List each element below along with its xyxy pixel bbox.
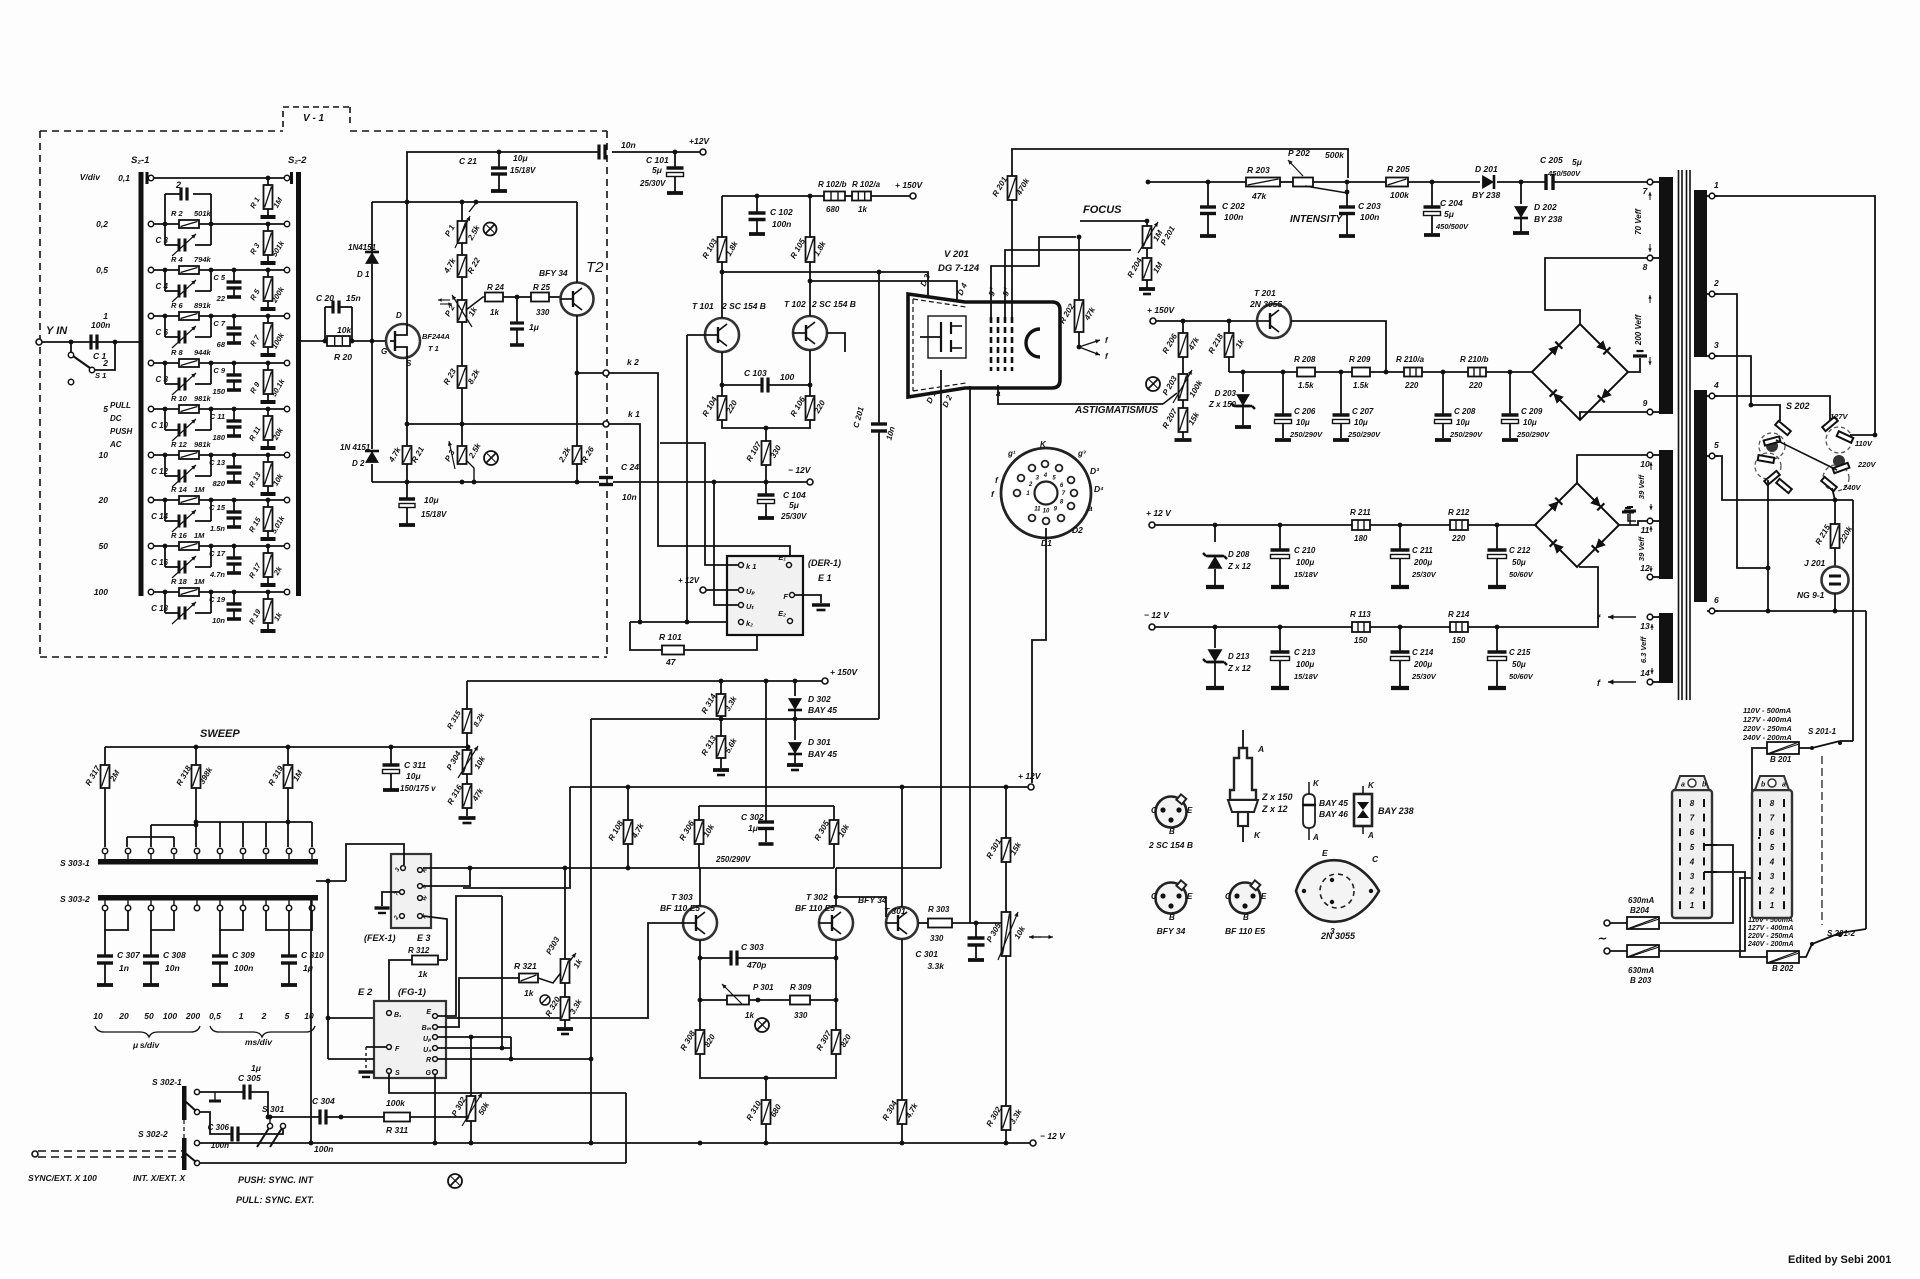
junction [808,279,813,284]
module V-1 dashed outline [40,107,607,657]
capacitor C 309 100n [212,930,255,985]
svg-text:C 203: C 203 [1358,201,1381,211]
terminal -12V [788,465,813,485]
filament lead f tap13 [1597,613,1636,623]
transformer tap 12 [1640,563,1659,580]
screw adjust [755,1018,769,1032]
pin E3 mid left [394,890,405,897]
resistor R211 180 [1350,508,1371,543]
terminal +12V E1 [678,576,738,593]
resistor R306 10k [678,819,717,844]
wire connector1 pin3 [1704,871,1717,873]
svg-text:DC: DC [110,414,122,423]
wire F ground [795,595,830,610]
wire F ground dotted [359,1047,387,1077]
svg-text:Z x 150: Z x 150 [1261,792,1293,802]
fuse table B202 [1747,917,1794,948]
svg-text:10: 10 [99,450,109,460]
svg-text:E 3: E 3 [417,933,431,943]
wire E3 out1 rail [423,867,699,869]
svg-text:C 14: C 14 [151,512,168,521]
svg-text:1μ: 1μ [251,1063,262,1073]
svg-text:S 301: S 301 [262,1104,284,1114]
terminal +12V psu [1146,508,1172,528]
svg-text:794k: 794k [194,255,212,264]
svg-text:T 301: T 301 [884,906,906,916]
resistor R102/a 1k [852,180,881,214]
resistor R203 47k [1246,165,1280,201]
svg-text:6: 6 [1690,828,1695,837]
wire sync bus [268,1116,320,1118]
svg-text:1.5n: 1.5n [210,524,225,533]
wire connector2 pin3 [1758,877,1760,879]
svg-text:8: 8 [1770,799,1775,808]
resistor R311 100k [384,1098,410,1135]
resistor R218 1k [1207,321,1247,372]
svg-text:Uₚ: Uₚ [423,1036,432,1043]
wire +150V xamp rail [467,680,822,682]
svg-text:100: 100 [163,1011,177,1021]
svg-text:C 306: C 306 [208,1123,230,1132]
terminal k1 [407,409,640,427]
svg-text:1: 1 [103,311,108,321]
wire to T1 gate [350,340,387,342]
svg-text:C 20: C 20 [316,293,334,303]
svg-text:C 4: C 4 [156,282,169,291]
capacitor C215 50u 50/60V [1488,627,1534,688]
junction [1241,370,1246,375]
resistor R103 1.8k [701,196,740,262]
svg-text:BF 110 E5: BF 110 E5 [795,903,835,913]
svg-text:C 202: C 202 [1222,201,1245,211]
svg-text:B: B [1243,913,1249,922]
transformer primary tap 2 [1707,278,1719,297]
label 6.3 Veff [1639,624,1654,674]
wire R pin [438,1058,593,1060]
screw adjust [448,1174,462,1188]
switch contact S2-2 row 0,2 [284,221,289,226]
transformer tap 9 [1643,398,1659,415]
svg-text:47: 47 [665,657,677,667]
resistor R107 330 [745,428,784,482]
capacitor C 209 10u 250/290V [1502,372,1551,440]
svg-text:S 201-1: S 201-1 [1808,727,1837,736]
switch contact S2-1 row 0,5 [148,267,153,272]
capacitor C302 1u 250/290V [715,806,774,864]
svg-text:5: 5 [1690,843,1695,852]
svg-text:D 301: D 301 [808,737,831,747]
resistor R101 47 [659,632,684,667]
svg-text:10n: 10n [621,140,636,150]
svg-text:0,5: 0,5 [209,1011,221,1021]
wire attenuator row [154,499,284,501]
svg-text:9: 9 [1643,398,1648,408]
pin E3 right 1 [418,867,430,874]
svg-text:2: 2 [1769,887,1775,896]
svg-text:C 303: C 303 [741,942,764,952]
junction [575,371,580,376]
capacitor C303 470p [700,942,836,970]
wire T301 emitter [901,939,903,1100]
wire T102 emitter [809,350,811,396]
wire T102 base [827,333,845,352]
svg-text:500k: 500k [1325,150,1345,160]
diode D201 BY238 [1472,164,1500,200]
svg-text:S 303-1: S 303-1 [60,858,90,868]
svg-text:C 16: C 16 [151,558,168,567]
transistor T1 BF244A FET [381,311,450,368]
wire sweep tree [127,822,312,847]
svg-text:T 302: T 302 [806,892,828,902]
resistor R308 820 [679,1029,718,1054]
capacitor C203 100n [1339,192,1381,236]
svg-text:11: 11 [1034,507,1041,513]
resistor R 9 50.1k [248,361,287,402]
wire +12V left corner [463,787,570,888]
junction [1766,566,1771,571]
wire rotor link [1776,440,1837,470]
svg-text:10: 10 [1640,459,1650,469]
pinout 2SC154B [1148,794,1193,850]
svg-text:AC: AC [109,440,122,449]
svg-text:50/60V: 50/60V [1509,570,1534,579]
svg-text:B: B [1169,827,1175,836]
svg-text:1N4151: 1N4151 [348,243,377,252]
label 39 Veff upper [1637,462,1653,510]
svg-text:2N 3055: 2N 3055 [1249,299,1282,309]
svg-text:100: 100 [780,372,794,382]
svg-text:b: b [1702,782,1707,789]
wire 150V filter rail [1229,371,1297,373]
switch bar S2-1 [131,155,149,596]
svg-text:C 211: C 211 [1412,546,1433,555]
wire +150V rail [722,195,824,197]
wire T303 collector [699,868,701,906]
wire T201 to rail [1291,321,1386,372]
switch contact S2-2 row 10 [284,452,289,457]
svg-text:C 6: C 6 [156,328,169,337]
transformer tap 8 [1643,255,1659,272]
svg-text:100n: 100n [314,1144,333,1154]
wire bridge2 right to tap11 [1619,507,1648,525]
svg-text:1k: 1k [490,308,499,317]
svg-text:1: 1 [1690,901,1695,910]
capacitor C301 3.3k [915,923,984,971]
electron gun [920,316,966,358]
capacitor 10u 15/18V [399,482,447,525]
resistor R108 4.7k [607,787,646,868]
pinout BF110E5 [1225,880,1267,936]
svg-text:220: 220 [1468,381,1483,390]
resistor R315 8.2k [445,708,487,750]
junction [268,1115,273,1120]
wire Up pin [438,1036,511,1038]
pin k2 [739,619,754,628]
capacitor C21 10u 15/18V [459,152,536,191]
resistor R22 4.7k [442,243,483,277]
svg-text:2: 2 [175,180,181,190]
svg-text:C 214: C 214 [1412,648,1434,657]
junction [720,383,725,388]
wire k2 pin feed [630,621,739,623]
tube socket V201 base diagram [991,440,1104,548]
svg-text:0,2: 0,2 [96,219,108,229]
wire attenuator output [301,340,327,342]
resistor R 8 944k with trimmer C 8 module [156,348,214,395]
svg-text:R 205: R 205 [1387,164,1410,174]
module E3 (FEX-1) [364,854,431,943]
svg-text:50: 50 [144,1011,154,1021]
capacitor C 5 22 [213,268,241,303]
svg-text:INT. X/EXT. X: INT. X/EXT. X [133,1173,186,1183]
svg-text:G: G [426,1070,432,1077]
svg-text:− 12V: − 12V [788,465,812,475]
switch S1 PULL DC / PUSH AC [68,344,132,449]
svg-text:BFY 34: BFY 34 [1157,926,1186,936]
svg-text:FOCUS: FOCUS [1083,204,1122,216]
wire C201 bus [591,718,879,720]
svg-text:820: 820 [212,479,225,488]
resistor R305 10k [813,819,852,844]
svg-text:C 209: C 209 [1521,407,1543,416]
svg-text:68: 68 [217,340,226,349]
svg-text:+12V: +12V [689,136,710,146]
pin S [387,1069,400,1077]
svg-text:E₂: E₂ [778,609,786,618]
svg-text:2: 2 [1713,278,1719,288]
svg-text:D 201: D 201 [1475,164,1498,174]
pinout BFY34 [1151,880,1193,936]
trimmer P303 1k [538,868,584,983]
svg-text:C 307: C 307 [117,950,141,960]
svg-text:C 103: C 103 [744,368,767,378]
junction [405,200,410,205]
svg-text:25/30V: 25/30V [780,512,807,521]
fuse B204 630mA [1610,896,1659,929]
pin E3 bot left [393,914,404,922]
capacitor C311 10u 150/175V [383,747,437,793]
svg-text:25/30V: 25/30V [639,179,666,188]
switch contact S2-1 row 100 [148,589,153,594]
pin E3 right 2 [418,884,429,890]
svg-text:2 SC 154 B: 2 SC 154 B [721,301,766,311]
capacitor C 208 10u 250/290V [1435,372,1484,440]
timebase range labels [93,1011,315,1050]
svg-text:70 Veff: 70 Veff [1634,208,1643,235]
svg-text:Uₜ: Uₜ [746,602,754,611]
svg-text:D 2: D 2 [352,459,365,468]
svg-text:10μ: 10μ [424,495,439,505]
CRT V201 DG7-124 envelope [908,249,1060,397]
wire top rail y202 [372,201,577,203]
svg-text:2: 2 [102,358,108,368]
svg-text:R 14: R 14 [171,485,188,494]
svg-text:Uₚ: Uₚ [746,587,755,596]
svg-text:1μ: 1μ [529,322,540,332]
svg-text:1n: 1n [119,963,129,973]
switch S201-1 [1799,727,1853,750]
pinout BAY238 [1354,781,1414,840]
junction [1749,403,1754,408]
wire Y IN to attenuator [42,341,139,343]
diode D2 1N4151 [340,341,379,482]
wire R101 to E2 pin [684,625,757,650]
svg-text:2N 3055: 2N 3055 [1320,931,1356,941]
resistor R321 1k [514,961,538,998]
junction [500,1046,505,1051]
svg-text:5μ: 5μ [652,165,663,175]
svg-text:20: 20 [98,495,109,505]
svg-text:1.5k: 1.5k [1298,381,1314,390]
svg-text:Bₘ: Bₘ [422,1025,432,1032]
wire xamp output rail [836,867,941,869]
wire R311 to P302 [410,1116,471,1118]
wire k1 route [609,424,640,622]
svg-text:D 208: D 208 [1228,550,1250,559]
svg-text:A: A [1257,744,1264,754]
capacitor C20 15n [316,293,361,341]
svg-text:+ 150V: + 150V [895,180,924,190]
wire E2 S riser [625,1093,627,1163]
switch S301 [257,1104,286,1147]
svg-text:C 204: C 204 [1440,198,1463,208]
potentiometer P202 500k [1288,148,1349,194]
svg-text:R 101: R 101 [659,632,682,642]
wire fuse B203 to connector [1659,872,1745,951]
capacitor C211 200u 25/30V [1391,525,1437,587]
resistor R314 3.3k [700,681,739,716]
wire T303 emitter [699,940,701,1030]
wire S302-1 upper contact [200,1091,244,1093]
svg-text:C 11: C 11 [210,412,225,421]
resistor R210/b 220 [1460,355,1489,390]
terminal +150V psu [1147,305,1176,324]
junction [764,480,769,485]
resistor R205 100k [1386,164,1410,200]
svg-text:180: 180 [212,433,225,442]
junction [323,339,328,344]
svg-text:R 8: R 8 [171,348,184,357]
junction [1213,625,1218,630]
svg-text:C: C [1225,892,1231,901]
svg-text:R 10: R 10 [171,394,188,403]
switch contact S2-2 row 20 [284,497,289,502]
wire attenuator row [154,408,284,410]
svg-text:B204: B204 [1630,906,1650,915]
svg-text:D³: D³ [1090,466,1100,476]
screw adjust [484,451,498,465]
capacitor C 310 1&#956; [281,930,324,985]
filament lead f tap14 [1597,678,1636,688]
wire -12V long rail [197,1142,1030,1144]
svg-text:BFY 34: BFY 34 [539,268,568,278]
wire k2 to E1 [609,373,790,562]
svg-text:PUSH: SYNC. INT: PUSH: SYNC. INT [238,1175,315,1185]
svg-text:10: 10 [93,1011,103,1021]
svg-text:C 304: C 304 [312,1096,335,1106]
svg-text:220V: 220V [1857,460,1877,469]
svg-text:g³: g³ [1077,449,1086,458]
svg-text:k 1: k 1 [746,562,756,571]
wire E pin [438,896,502,1016]
wire k1 pin [660,443,738,565]
capacitor C 308 10n [143,930,186,985]
pin R [426,1057,437,1064]
svg-text:100n: 100n [234,963,253,973]
pin E3 right 3 [418,895,430,902]
bridge rectifier 200V [1532,324,1628,420]
capacitor C 207 10u 250/290V [1333,372,1382,440]
svg-text:D 202: D 202 [1534,202,1557,212]
svg-text:E 2: E 2 [358,987,373,998]
resistor R204 1M [1126,248,1165,294]
svg-text:6.3 Veff: 6.3 Veff [1639,635,1648,663]
svg-text:S 1: S 1 [95,371,106,380]
pin k1 [739,562,757,571]
svg-text:R 102/a: R 102/a [852,180,881,189]
wire E3 ground [375,892,400,913]
pin Uw [739,602,755,611]
svg-text:15/18V: 15/18V [421,510,447,519]
transformer tap 10 [1640,452,1659,469]
transistor T102 2SC154B [784,299,856,350]
wire C306 to S301 [238,1129,283,1134]
svg-text:22: 22 [216,294,226,303]
resistor R201 470k [991,175,1032,200]
svg-text:DG 7-124: DG 7-124 [938,263,980,274]
svg-text:1: 1 [1714,180,1719,190]
resistor R 14 1M with trimmer C 14 module [151,485,213,532]
wire bus down [327,881,329,1059]
junction [1181,319,1186,324]
svg-text:Uₙ: Uₙ [423,1047,432,1054]
svg-text:C 206: C 206 [1294,407,1316,416]
junction [764,426,769,431]
switch S201-2 [1799,929,1866,957]
wire tap5 rail [1715,456,1853,500]
wire E3 out4 to R312 [423,916,447,960]
svg-text:R 25: R 25 [533,283,550,292]
svg-text:k 2: k 2 [627,357,639,367]
svg-text:110V - 500mA: 110V - 500mA [1743,706,1791,715]
wire S302-1 lower contact [200,1112,232,1134]
wire attenuator row [154,591,284,593]
wire R201 top loop [1012,149,1348,178]
capacitor 1u [510,297,540,345]
ground stub [209,1092,221,1101]
capacitor C 307 1n [97,930,141,985]
svg-text:220: 220 [1451,534,1466,543]
svg-text:B: B [1169,913,1175,922]
wire T302 collector [835,868,837,906]
svg-text:V 201: V 201 [944,249,969,260]
svg-text:4: 4 [1043,473,1048,479]
pin E2 [778,609,792,624]
svg-text:R 203: R 203 [1247,165,1270,175]
trimmer P3 2.5k [443,424,483,482]
diode D202 BY238 [1513,182,1562,233]
filament f arrows [1077,336,1109,361]
wire sweep top rail [105,746,468,748]
capacitor C1 100n [91,320,115,361]
wire C302 feed [765,681,767,806]
capacitor C 7 68 [213,314,241,349]
svg-text:944k: 944k [194,348,212,357]
capacitor C204 5u 450/500V [1424,182,1470,235]
svg-text:C 308: C 308 [163,950,186,960]
resistor R320 3.3k [544,983,584,1034]
transistor T303 BF110E5 [660,892,717,940]
